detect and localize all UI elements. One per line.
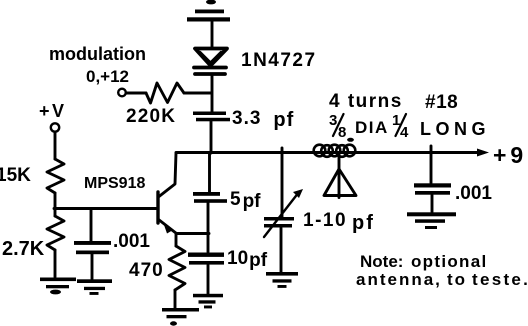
svg-text:5pf: 5pf [230, 189, 261, 212]
variable capacitor 1-10pf [264, 189, 303, 272]
main output wire [176, 151, 477, 154]
ground (below right .001) [407, 212, 456, 229]
svg-text:4: 4 [400, 124, 409, 141]
antenna symbol [324, 169, 356, 198]
svg-text:1N4727: 1N4727 [241, 50, 317, 71]
svg-text:teste.: teste. [472, 270, 528, 289]
svg-text:MPS918: MPS918 [84, 175, 145, 192]
svg-text:0,+12: 0,+12 [86, 67, 129, 86]
wire: 220K to diode line [184, 92, 211, 95]
+V rail symbol (top, inverted ground) [187, 0, 230, 21]
svg-text:.001: .001 [113, 231, 150, 252]
svg-text:#18: #18 [425, 92, 458, 113]
capacitor .001 (left) [74, 209, 111, 279]
svg-text:470: 470 [129, 260, 164, 281]
wire: +V terminal to 15K [54, 132, 57, 159]
svg-text:to: to [447, 270, 467, 289]
svg-text:DIA: DIA [355, 118, 389, 137]
wire: base [54, 207, 157, 210]
terminal circle +V [51, 123, 59, 131]
wire: 15K to base junction [54, 193, 57, 209]
svg-text:4 turns: 4 turns [329, 91, 403, 112]
wire: coil to antenna [338, 155, 341, 169]
svg-text:+V: +V [39, 101, 67, 121]
wire: 10pf to ground [207, 265, 210, 294]
capacitor 3.3pf [193, 112, 230, 122]
svg-text:modulation: modulation [49, 44, 146, 64]
svg-text:.001: .001 [455, 183, 492, 204]
ground (below variable cap) [266, 272, 298, 288]
wire: 3.3pf to main line [210, 121, 213, 153]
wire: top rail to diode [211, 21, 214, 48]
zener diode 1N4727 [194, 49, 227, 75]
ground (below 2.7K) [40, 278, 76, 295]
svg-text:3.3pf: 3.3pf [232, 108, 294, 131]
capacitor 5pf [193, 192, 227, 203]
wire: 5pf to emitter junction [207, 203, 210, 252]
transistor MPS918 [158, 192, 177, 234]
ground (below left .001) [77, 279, 112, 295]
svg-text:15K: 15K [0, 165, 31, 186]
svg-text:Note:: Note: [360, 252, 403, 271]
svg-text:10pf: 10pf [227, 248, 268, 271]
resistor 220K [146, 83, 184, 103]
svg-text:+9: +9 [493, 142, 527, 168]
capacitor 10pf [188, 253, 224, 265]
svg-text:optional: optional [411, 252, 488, 271]
svg-text:3: 3 [329, 112, 337, 129]
ground (below 470) [162, 308, 199, 326]
wire: collector riser [159, 153, 176, 197]
svg-text:LONG: LONG [420, 119, 490, 139]
wire: main line to 5pf [208, 153, 211, 192]
wire: terminal to 220K [126, 92, 146, 95]
capacitor .001 (right) [414, 146, 451, 212]
svg-text:8: 8 [338, 124, 346, 141]
ground (below 10pf) [193, 294, 223, 309]
svg-text:antenna,: antenna, [356, 270, 442, 289]
terminal circle (modulation input) [118, 89, 126, 97]
inductor coil (4 turns) [314, 138, 356, 157]
wire: diode to 3.3pf [211, 76, 214, 112]
svg-text:220K: 220K [126, 106, 176, 127]
arrowhead (+9 output) [477, 149, 489, 157]
resistor 15K [47, 159, 64, 193]
resistor 470 [169, 234, 185, 309]
wire: emitter to cap junction [177, 232, 210, 235]
svg-text:2.7K: 2.7K [2, 238, 45, 260]
resistor 2.7K [47, 209, 64, 277]
wire: main line to variable cap [281, 148, 284, 217]
svg-text:1-10pf: 1-10pf [303, 210, 375, 234]
